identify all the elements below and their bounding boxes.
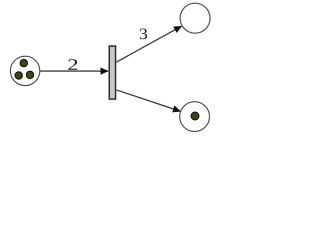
place P2 xyxy=(180,3,210,33)
label weight 3 xyxy=(140,29,147,40)
place P3 xyxy=(180,102,210,132)
token 3 in P1 xyxy=(26,71,33,78)
place P1 xyxy=(10,56,39,85)
token 2 in P1 xyxy=(15,72,22,79)
token 1 in P1 xyxy=(20,59,27,66)
wire arc P1 to T1 xyxy=(40,70,108,72)
token in P3 xyxy=(191,112,199,120)
label weight 2 xyxy=(68,59,77,70)
wire arc T1 to P2 xyxy=(117,26,182,62)
transition T1 xyxy=(109,46,115,99)
wire arc T1 to P3 xyxy=(117,90,181,111)
